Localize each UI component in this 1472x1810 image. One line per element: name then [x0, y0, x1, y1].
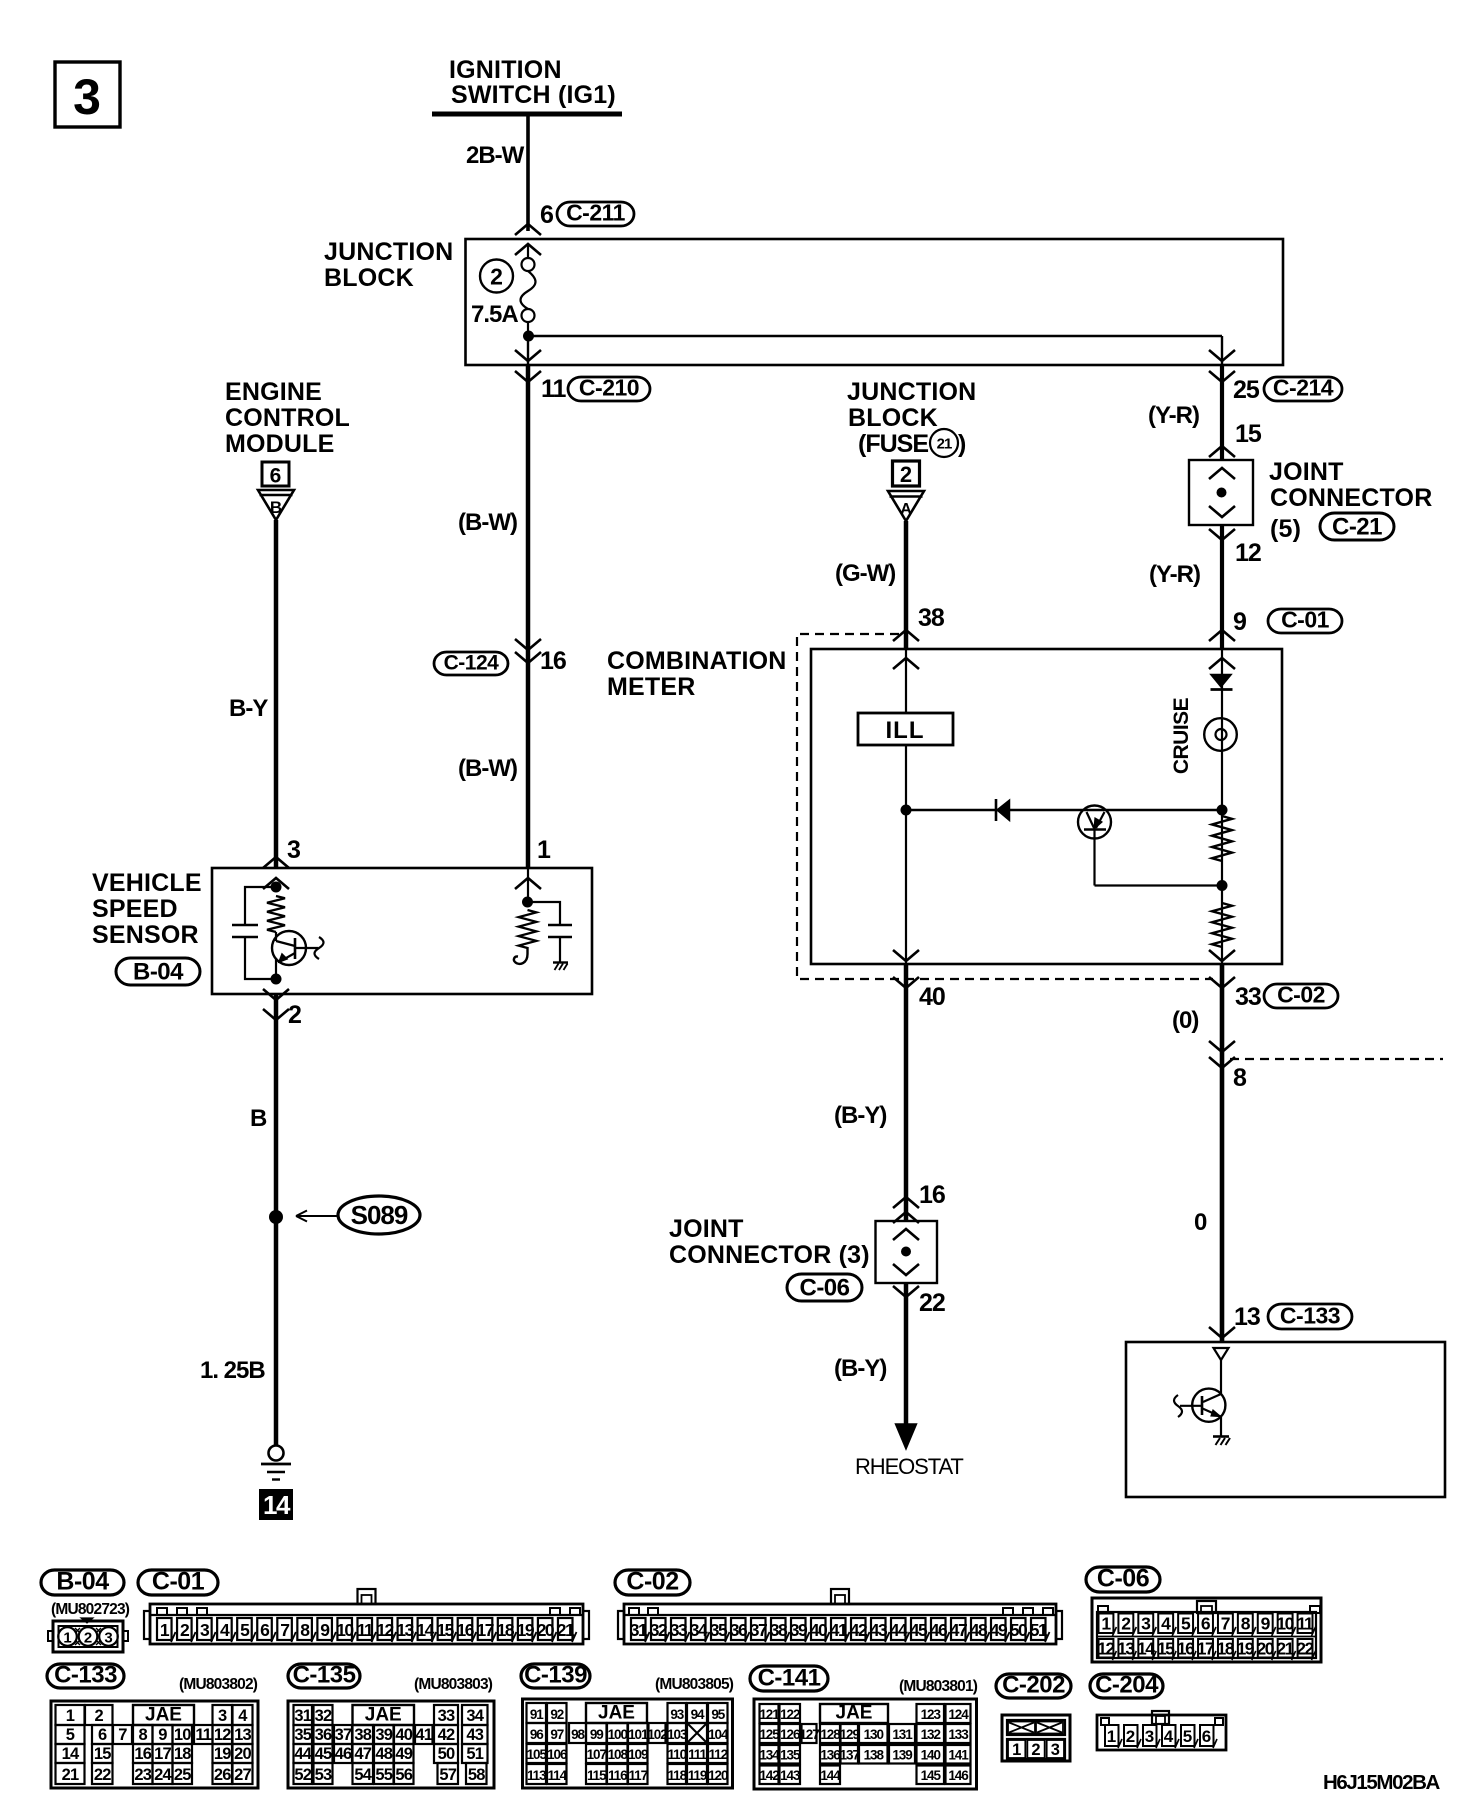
svg-text:136: 136: [820, 1748, 841, 1763]
svg-text:34: 34: [466, 1707, 484, 1725]
svg-text:2: 2: [1031, 1741, 1040, 1759]
fuse number circle 2: [480, 260, 513, 293]
svg-text:41: 41: [415, 1726, 432, 1744]
sensor right resistor: [519, 910, 537, 948]
wire Y-R joint connector to meter: [1220, 525, 1224, 649]
svg-text:MODULE: MODULE: [225, 430, 335, 458]
svg-text:8: 8: [1233, 1064, 1247, 1092]
svg-text:C-204: C-204: [1095, 1672, 1159, 1699]
svg-text:105: 105: [527, 1747, 548, 1762]
svg-text:ILL: ILL: [886, 717, 925, 744]
svg-text:BLOCK: BLOCK: [324, 264, 414, 292]
svg-text:38: 38: [770, 1620, 788, 1640]
svg-text:3: 3: [287, 836, 300, 864]
connector tag C-02 (pinout): [615, 1570, 690, 1595]
svg-text:12: 12: [376, 1620, 394, 1640]
splice label S089: [338, 1196, 420, 1234]
svg-text:35: 35: [710, 1620, 728, 1640]
svg-text:10: 10: [336, 1620, 354, 1640]
svg-text:139: 139: [892, 1748, 912, 1763]
svg-text:137: 137: [840, 1748, 860, 1763]
connector tag C-01 (pinout): [138, 1570, 218, 1595]
svg-text:140: 140: [921, 1748, 941, 1763]
svg-text:7: 7: [118, 1726, 127, 1744]
svg-text:22: 22: [919, 1289, 945, 1317]
svg-text:13: 13: [1234, 1303, 1260, 1331]
meter internal horizontal wire: [906, 809, 1222, 811]
svg-text:25: 25: [1233, 376, 1260, 404]
svg-text:56: 56: [395, 1766, 412, 1784]
svg-text:16: 16: [919, 1181, 945, 1209]
svg-text:(B-Y): (B-Y): [834, 1355, 886, 1382]
svg-text:1: 1: [66, 1707, 75, 1725]
splice arrow: [296, 1215, 338, 1217]
svg-text:2: 2: [288, 1001, 301, 1029]
sensor right node dot: [522, 897, 533, 908]
svg-text:53: 53: [315, 1766, 332, 1784]
dashed line right: [1230, 1058, 1443, 1060]
svg-text:JAE: JAE: [365, 1705, 402, 1726]
svg-text:39: 39: [790, 1620, 808, 1640]
svg-text:17: 17: [477, 1620, 494, 1640]
svg-text:31: 31: [630, 1620, 648, 1640]
svg-text:(MU803802): (MU803802): [179, 1676, 258, 1693]
svg-text:C-124: C-124: [444, 652, 500, 675]
svg-text:CONTROL: CONTROL: [225, 404, 350, 432]
splice node dot S089: [269, 1210, 283, 1224]
svg-text:49: 49: [990, 1620, 1008, 1640]
svg-text:(MU803805): (MU803805): [655, 1676, 734, 1693]
CRUISE lamp: [1204, 718, 1237, 751]
ECM triangle B: [258, 490, 294, 520]
connector tag C-202 (pinout): [996, 1674, 1071, 1698]
connector tag C-06 (pinout): [1086, 1567, 1160, 1592]
inline connector 8 chevrons: [1209, 1041, 1235, 1052]
svg-text:(B-Y): (B-Y): [834, 1102, 886, 1129]
svg-text:15: 15: [1235, 420, 1262, 448]
wire B-Y meter to joint connector: [904, 964, 909, 1221]
svg-text:12: 12: [1097, 1639, 1115, 1659]
svg-text:C-06: C-06: [1097, 1565, 1149, 1593]
joint connector 5 chevron inside bottom: [1209, 506, 1235, 517]
svg-text:17: 17: [154, 1745, 171, 1763]
svg-text:33: 33: [670, 1620, 688, 1640]
svg-text:JUNCTION: JUNCTION: [324, 238, 453, 266]
combination meter box: [811, 649, 1282, 964]
connector tag C-139 (pinout): [521, 1664, 590, 1688]
connector tag C-133 (pinout): [47, 1664, 124, 1688]
svg-text:13: 13: [1117, 1639, 1135, 1659]
svg-text:(B-W): (B-W): [458, 509, 517, 536]
svg-text:98: 98: [571, 1727, 585, 1742]
svg-text:C-01: C-01: [152, 1568, 205, 1596]
svg-text:2: 2: [84, 1630, 92, 1647]
svg-text:47: 47: [950, 1620, 967, 1640]
svg-text:109: 109: [628, 1747, 648, 1762]
svg-text:6: 6: [1202, 1727, 1211, 1746]
svg-text:16: 16: [1177, 1639, 1195, 1659]
joint connector 3 chevron inside bottom: [893, 1264, 919, 1275]
svg-text:37: 37: [335, 1726, 352, 1744]
connector tag C-135 (pinout): [288, 1664, 360, 1688]
inline connector C-124 chevrons: [515, 639, 541, 650]
wire B-Y to rheostat: [904, 1283, 909, 1426]
svg-text:42: 42: [850, 1620, 868, 1640]
svg-text:104: 104: [708, 1727, 729, 1742]
svg-text:131: 131: [892, 1727, 913, 1742]
svg-text:16: 16: [134, 1745, 151, 1763]
svg-text:C-135: C-135: [293, 1662, 356, 1689]
svg-text:C-139: C-139: [524, 1662, 587, 1689]
svg-text:8: 8: [139, 1726, 148, 1744]
svg-text:20: 20: [1256, 1639, 1274, 1659]
joint connector 5 exit chevron: [1209, 529, 1235, 540]
svg-text:96: 96: [530, 1727, 544, 1742]
fuse 21 source box 2: [893, 461, 920, 486]
svg-text:10: 10: [174, 1726, 191, 1744]
svg-text:101: 101: [628, 1727, 649, 1742]
wire 0 from meter to C-133: [1220, 964, 1225, 1342]
svg-text:21: 21: [1276, 1639, 1294, 1659]
svg-text:24: 24: [154, 1766, 172, 1784]
svg-text:54: 54: [354, 1766, 372, 1784]
ECM connector box 6: [262, 462, 289, 486]
svg-text:123: 123: [921, 1707, 942, 1722]
sensor pin 2 exit chevrons: [263, 989, 289, 1000]
connector tag C-133 (pin 13): [1268, 1304, 1352, 1329]
svg-text:(0): (0): [1172, 1007, 1198, 1034]
svg-text:B: B: [270, 498, 282, 517]
joint connector 5 entry chevron: [1209, 446, 1235, 457]
svg-text:11: 11: [357, 1620, 374, 1640]
svg-text:43: 43: [466, 1726, 483, 1744]
sensor right capacitor to chassis: [528, 902, 561, 925]
sensor right pigtail ground: [514, 947, 528, 964]
svg-text:52: 52: [294, 1766, 311, 1784]
svg-text:B-04: B-04: [56, 1568, 109, 1596]
meter internal node dot left: [901, 805, 912, 816]
svg-text:RHEOSTAT: RHEOSTAT: [855, 1454, 963, 1479]
combination meter dashed outline: [797, 634, 1213, 979]
sensor internal resistor: [267, 896, 285, 932]
svg-text:11: 11: [1297, 1614, 1314, 1634]
svg-text:15: 15: [94, 1745, 111, 1763]
rheostat arrow: [896, 1424, 917, 1449]
svg-text:0: 0: [1194, 1209, 1207, 1236]
svg-text:JUNCTION: JUNCTION: [847, 378, 976, 406]
connector tag C-211: [557, 202, 634, 226]
ignition switch bus bar: [432, 112, 622, 117]
svg-text:108: 108: [608, 1747, 629, 1762]
svg-text:22: 22: [1296, 1639, 1314, 1659]
connector B-04 drawing: [53, 1621, 123, 1652]
svg-text:9: 9: [1233, 608, 1246, 636]
svg-text:38: 38: [354, 1726, 371, 1744]
meter cruise branch wire: [1221, 649, 1223, 964]
meter pin 38 entry chevrons: [893, 630, 919, 641]
svg-text:C-02: C-02: [626, 1568, 678, 1596]
svg-text:13: 13: [234, 1726, 251, 1744]
ground symbol: [269, 1446, 284, 1461]
joint connector 5 chevron inside top: [1209, 468, 1235, 479]
svg-text:2B-W: 2B-W: [466, 142, 525, 169]
joint connector 3 exit chevron: [893, 1286, 919, 1297]
connector C-211 pin 6 chevrons: [515, 224, 541, 235]
connector tag C-204 (pinout): [1090, 1674, 1163, 1698]
svg-text:106: 106: [547, 1747, 568, 1762]
svg-text:(MU803801): (MU803801): [899, 1678, 978, 1695]
svg-text:SENSOR: SENSOR: [92, 921, 199, 949]
connector C-204 drawing: [1097, 1715, 1226, 1750]
wire B below sensor: [274, 994, 279, 1446]
svg-text:95: 95: [711, 1707, 725, 1722]
svg-text:SWITCH (IG1): SWITCH (IG1): [451, 81, 616, 109]
connector tag C-02 (meter): [1264, 984, 1338, 1008]
vehicle speed sensor box: [212, 868, 592, 994]
svg-text:2: 2: [95, 1707, 104, 1725]
svg-text:48: 48: [970, 1620, 988, 1640]
svg-text:14: 14: [1137, 1639, 1155, 1659]
svg-text:97: 97: [550, 1727, 563, 1742]
svg-text:14: 14: [416, 1620, 434, 1640]
svg-text:20: 20: [234, 1745, 251, 1763]
svg-text:S089: S089: [351, 1200, 408, 1230]
svg-text:C-01: C-01: [1281, 607, 1330, 633]
svg-text:32: 32: [650, 1620, 668, 1640]
svg-text:IGNITION: IGNITION: [449, 56, 562, 84]
svg-text:40: 40: [810, 1620, 828, 1640]
svg-text:33: 33: [1235, 983, 1261, 1011]
sensor pin 3 entry chevrons: [263, 857, 289, 868]
svg-text:115: 115: [587, 1768, 607, 1783]
svg-text:3: 3: [73, 69, 101, 125]
svg-text:145: 145: [921, 1768, 942, 1783]
svg-text:1: 1: [1107, 1727, 1116, 1746]
svg-text:6: 6: [270, 465, 282, 488]
svg-text:3: 3: [1051, 1741, 1060, 1759]
svg-text:50: 50: [438, 1745, 455, 1763]
wire Y-R from C-214 to joint connector 5: [1220, 365, 1224, 460]
connector tag B-04 (pinout): [41, 1570, 124, 1595]
sensor right wire: [527, 868, 529, 902]
svg-text:132: 132: [921, 1727, 941, 1742]
svg-text:10: 10: [1276, 1614, 1294, 1634]
svg-text:117: 117: [629, 1768, 648, 1783]
svg-text:(MU803803): (MU803803): [414, 1676, 493, 1693]
svg-text:15: 15: [1157, 1639, 1175, 1659]
svg-text:JAE: JAE: [836, 1703, 873, 1724]
svg-text:B-04: B-04: [133, 959, 184, 986]
svg-text:31: 31: [294, 1707, 311, 1725]
svg-text:C-06: C-06: [799, 1275, 849, 1302]
svg-text:(G-W): (G-W): [835, 560, 895, 587]
svg-text:23: 23: [134, 1766, 151, 1784]
svg-text:3: 3: [218, 1707, 227, 1725]
svg-text:49: 49: [395, 1745, 412, 1763]
sensor internal node dot top: [271, 882, 282, 893]
connector C-210 pin 11 chevrons: [515, 350, 541, 361]
svg-text:(Y-R): (Y-R): [1148, 402, 1199, 429]
cruise control unit box: [1126, 1342, 1445, 1497]
svg-text:21: 21: [62, 1766, 79, 1784]
svg-text:51: 51: [1030, 1620, 1048, 1640]
svg-text:125: 125: [759, 1727, 780, 1742]
svg-text:9: 9: [158, 1726, 167, 1744]
svg-text:CRUISE: CRUISE: [1170, 697, 1193, 774]
svg-text:99: 99: [590, 1727, 603, 1742]
svg-text:JAE: JAE: [145, 1705, 182, 1726]
svg-text:5: 5: [66, 1726, 75, 1744]
svg-text:127: 127: [799, 1727, 819, 1742]
diode D2 cruise branch: [1211, 675, 1231, 688]
svg-text:142: 142: [759, 1768, 779, 1783]
svg-text:144: 144: [820, 1768, 841, 1783]
wire 2B-W from ignition switch: [526, 114, 530, 231]
chassis ground hatch (sensor): [553, 961, 568, 963]
svg-text:133: 133: [948, 1727, 969, 1742]
svg-text:COMBINATION: COMBINATION: [607, 647, 787, 675]
connector C-133 drawing: [51, 1701, 258, 1788]
svg-text:44: 44: [294, 1745, 312, 1763]
svg-text:122: 122: [780, 1707, 800, 1722]
diode D1 on horizontal wire: [995, 799, 998, 821]
speed signal device circle: [1078, 806, 1111, 839]
connector tag C-141 (pinout): [750, 1666, 828, 1691]
svg-text:92: 92: [550, 1707, 563, 1722]
svg-text:42: 42: [438, 1726, 455, 1744]
meter node dot right lower: [1217, 880, 1228, 891]
svg-text:C-133: C-133: [54, 1662, 117, 1689]
svg-text:20: 20: [537, 1620, 555, 1640]
svg-text:C-202: C-202: [1002, 1672, 1065, 1699]
svg-text:16: 16: [540, 647, 566, 675]
svg-text:55: 55: [375, 1766, 392, 1784]
svg-text:C-21: C-21: [1332, 514, 1382, 541]
fuse 21 source triangle A: [888, 491, 924, 521]
svg-text:130: 130: [864, 1727, 884, 1742]
svg-text:119: 119: [688, 1768, 707, 1783]
svg-text:25: 25: [174, 1766, 191, 1784]
svg-text:40: 40: [395, 1726, 412, 1744]
sensor pickup element squiggle: [295, 947, 318, 949]
svg-text:111: 111: [688, 1747, 707, 1762]
svg-text:CONNECTOR (3): CONNECTOR (3): [669, 1241, 870, 1269]
svg-text:113: 113: [527, 1768, 547, 1783]
svg-text:1: 1: [1012, 1741, 1021, 1759]
svg-text:19: 19: [517, 1620, 535, 1640]
svg-text:(Y-R): (Y-R): [1149, 561, 1200, 588]
svg-text:H6J15M02BA: H6J15M02BA: [1323, 1771, 1440, 1794]
svg-text:91: 91: [530, 1707, 544, 1722]
svg-text:1. 25B: 1. 25B: [200, 1357, 265, 1384]
connector C-135 drawing: [288, 1701, 494, 1788]
fuse 7.5A symbol: [527, 244, 529, 258]
ILL lamp box: [858, 713, 953, 745]
joint connector 3 box: [876, 1221, 938, 1283]
joint connector 3 chevron inside top: [893, 1229, 919, 1240]
svg-text:94: 94: [691, 1707, 705, 1722]
svg-text:22: 22: [94, 1766, 111, 1784]
svg-text:B: B: [250, 1105, 267, 1132]
svg-text:41: 41: [830, 1620, 848, 1640]
svg-text:26: 26: [214, 1766, 231, 1784]
svg-text:12: 12: [214, 1726, 231, 1744]
wire fuse output horizontal: [528, 335, 1222, 337]
svg-text:45: 45: [910, 1620, 928, 1640]
svg-text:B-Y: B-Y: [229, 695, 268, 722]
svg-text:3: 3: [1145, 1727, 1154, 1746]
svg-text:43: 43: [870, 1620, 888, 1640]
meter ILL branch wire: [905, 649, 907, 964]
svg-text:33: 33: [438, 1707, 455, 1725]
svg-text:121: 121: [759, 1707, 780, 1722]
svg-text:58: 58: [468, 1766, 485, 1784]
svg-text:6: 6: [540, 201, 553, 229]
svg-text:57: 57: [439, 1766, 456, 1784]
svg-text:C-02: C-02: [1277, 982, 1325, 1008]
wire B-Y from ECM to vehicle speed sensor: [274, 520, 279, 868]
svg-text:4: 4: [1164, 1727, 1174, 1746]
svg-text:27: 27: [234, 1766, 251, 1784]
meter resistor R1: [1212, 816, 1232, 861]
svg-text:34: 34: [690, 1620, 708, 1640]
svg-text:C-141: C-141: [758, 1665, 821, 1692]
connector C-01 drawing: [150, 1604, 583, 1644]
chassis ground (cruise unit): [1213, 1435, 1229, 1438]
sensor right branch entry chevron: [515, 878, 541, 889]
svg-text:21: 21: [557, 1620, 575, 1640]
svg-text:METER: METER: [607, 673, 696, 701]
svg-text:46: 46: [335, 1745, 352, 1763]
svg-text:50: 50: [1010, 1620, 1028, 1640]
connector tag C-01 (pin 9): [1268, 609, 1342, 633]
svg-text:SPEED: SPEED: [92, 895, 178, 923]
svg-text:107: 107: [587, 1747, 607, 1762]
svg-text:143: 143: [780, 1768, 801, 1783]
svg-text:102: 102: [647, 1727, 667, 1742]
svg-text:124: 124: [948, 1707, 969, 1722]
connector C-02 drawing: [624, 1604, 1056, 1644]
svg-text:116: 116: [608, 1768, 628, 1783]
svg-text:2: 2: [1126, 1727, 1135, 1746]
connector tag C-210: [568, 377, 650, 401]
svg-text:11: 11: [541, 375, 567, 403]
svg-text:40: 40: [919, 983, 945, 1011]
svg-text:JAE: JAE: [598, 1703, 635, 1724]
cruise unit input triangle: [1214, 1348, 1229, 1360]
svg-text:18: 18: [174, 1745, 191, 1763]
svg-text:37: 37: [750, 1620, 767, 1640]
meter pin 40 exit chevrons: [893, 950, 919, 961]
svg-text:129: 129: [840, 1727, 860, 1742]
svg-text:126: 126: [780, 1727, 801, 1742]
joint connector 5 node dot: [1217, 488, 1227, 498]
wire B-W bus from C-210 down to sensor box: [526, 365, 531, 868]
pin 13 entry chevron: [1209, 1327, 1235, 1338]
connector C-141 drawing: [754, 1699, 977, 1789]
svg-text:128: 128: [820, 1727, 841, 1742]
svg-text:19: 19: [214, 1745, 231, 1763]
joint connector 5 box: [1189, 460, 1253, 525]
svg-text:39: 39: [375, 1726, 392, 1744]
svg-text:19: 19: [1237, 1639, 1255, 1659]
svg-text:JOINT: JOINT: [1269, 458, 1344, 486]
sensor capacitor branch: [245, 887, 276, 925]
wire right branch down inside junction block: [1221, 336, 1223, 365]
connector tag C-06 (joint connector 3): [787, 1274, 862, 1301]
svg-text:(FUSE: (FUSE: [858, 430, 928, 458]
connector tag C-214: [1264, 377, 1342, 401]
